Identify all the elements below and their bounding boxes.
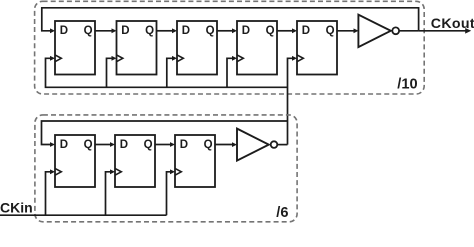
svg-text:D: D <box>180 139 188 151</box>
svg-text:Q: Q <box>326 25 335 37</box>
wire: top clock bus (y=87) with riser to FF1 clock <box>46 56 288 87</box>
wire: FF4 Q to FF5 D <box>277 28 297 33</box>
svg-text:/10: /10 <box>397 77 417 93</box>
wire: feedback from top inverter output to FF1 D <box>42 8 419 33</box>
wire: FF7 Q to FF8 D <box>155 142 175 147</box>
svg-text:Q: Q <box>266 25 275 37</box>
svg-text:Q: Q <box>84 139 93 151</box>
wire: U6 output to CKout junction <box>399 30 419 32</box>
wire: FF6 Q to FF7 D <box>95 142 115 147</box>
wire: clock feed from U7 output up to FF5 clock (vertical x=287.5) <box>288 56 298 145</box>
svg-text:Q: Q <box>206 25 215 37</box>
wire: feedback from U7 output to FF6 D <box>42 121 288 147</box>
svg-text:D: D <box>302 25 310 37</box>
svg-text:Q: Q <box>84 25 93 37</box>
svg-text:D: D <box>120 139 128 151</box>
inverter U6 (top) <box>358 15 399 47</box>
D flip-flop FF8 (bottom) <box>175 135 215 187</box>
svg-text:D: D <box>242 25 250 37</box>
D flip-flop FF4 (top) <box>237 21 277 75</box>
wire: CKin riser to FF7 clock <box>106 169 116 215</box>
wire: FF1 Q to FF2 D <box>95 28 117 33</box>
svg-text:CKin: CKin <box>0 200 33 216</box>
divider block /10 dashed box <box>35 1 425 94</box>
wire: CKin riser to FF6 clock <box>46 169 56 215</box>
divider block /6 dashed box <box>35 115 297 222</box>
wire: clock riser to FF2 <box>107 56 117 87</box>
D flip-flop FF1 (top) <box>55 21 95 75</box>
wire: FF8 Q to inverter U7 input <box>215 142 237 147</box>
svg-text:Q: Q <box>204 139 213 151</box>
D flip-flop FF3 (top) <box>177 21 217 75</box>
D flip-flop FF5 (top) <box>297 21 337 75</box>
wire: FF3 Q to FF4 D <box>217 28 237 33</box>
wire: CKin input bus (y=215.2) <box>0 214 167 216</box>
wire: FF2 Q to FF3 D <box>157 28 178 33</box>
svg-text:Q: Q <box>144 139 153 151</box>
svg-text:D: D <box>60 139 68 151</box>
D flip-flop FF6 (bottom) <box>55 135 95 187</box>
wire: U7 output to junction x=287.5 <box>277 144 287 146</box>
svg-text:/6: /6 <box>276 205 288 221</box>
svg-text:D: D <box>60 25 68 37</box>
svg-text:D: D <box>182 25 190 37</box>
wire: FF5 Q to inverter U6 input <box>337 28 359 33</box>
inverter U7 (bottom) <box>237 129 277 161</box>
D flip-flop FF2 (top) <box>117 21 157 75</box>
D flip-flop FF7 (bottom) <box>115 135 155 187</box>
wire: CKout output with arrow <box>419 28 472 34</box>
svg-text:D: D <box>121 25 129 37</box>
wire: clock riser to FF4 <box>227 56 237 87</box>
svg-text:Q: Q <box>145 25 154 37</box>
wire: CKin riser to FF8 clock <box>167 169 176 215</box>
wire: clock riser to FF3 <box>167 56 177 87</box>
svg-text:CKout: CKout <box>431 16 474 32</box>
